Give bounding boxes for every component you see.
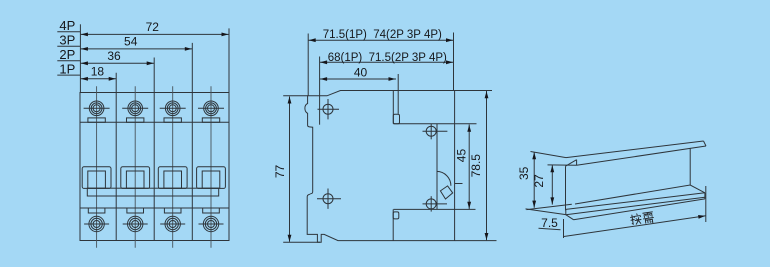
- din rail: web right end edge: [689, 148, 691, 185]
- din rail: 35 dim bottom extension line: [526, 209, 566, 215]
- din rail: 27 dim top extension line: [548, 164, 577, 166]
- svg-text:72: 72: [146, 20, 160, 34]
- front view: bottom terminal section divider line: [80, 207, 229, 209]
- side view: top extension line for 78.5 dim: [455, 90, 492, 92]
- svg-text:18: 18: [91, 64, 105, 78]
- front view: pole 1 bottom terminal screw: [89, 216, 104, 231]
- front view: pole separator line 2: [153, 58, 155, 241]
- front view: pole 3 center line: [172, 86, 174, 248]
- side view: back step vertical line at top: [392, 91, 394, 124]
- front view: pole 1 top terminal screw: [89, 101, 104, 116]
- svg-text:2P: 2P: [59, 47, 75, 62]
- svg-text:71.5(1P) 74(2P 3P 4P): 71.5(1P) 74(2P 3P 4P): [323, 29, 442, 41]
- din rail: 7.5 dim right extension line: [563, 219, 565, 238]
- front view: pole 1 toggle lever recess: [82, 167, 111, 189]
- din rail: top flange back edge: [566, 141, 704, 158]
- din rail: bottom flange front bottom edge: [574, 199, 705, 220]
- din rail: web left end edge: [565, 166, 567, 210]
- dimension 72: [80, 33, 229, 35]
- svg-text:40: 40: [354, 65, 368, 79]
- front view: pole 3 bottom terminal screw: [165, 216, 180, 231]
- din rail: length dim extension line at right end: [705, 186, 707, 222]
- front view: pole 4 top terminal clamp: [202, 118, 219, 122]
- side view: DIN recess lower ledge line: [394, 208, 476, 210]
- dimension as-needed length: [564, 216, 706, 237]
- front view: pole 4 toggle lever recess: [197, 167, 226, 189]
- side view: recess floor vertical line: [436, 124, 438, 210]
- front view: pole 2 center line: [134, 86, 136, 248]
- din rail: top flange left lip edges: [566, 160, 577, 167]
- side view: DIN recess upper ledge line: [393, 123, 476, 125]
- side view: extension line for 40 dim: [397, 74, 399, 114]
- side view: DIN clip latch arc: [437, 171, 451, 185]
- front view: pole separator line 1: [115, 73, 117, 241]
- dimension 35: [533, 152, 535, 208]
- side view: bottom front screw: [323, 194, 333, 204]
- front view: pole 4 top terminal screw: [204, 101, 219, 116]
- svg-text:27: 27: [532, 174, 546, 188]
- dimension 40: [320, 78, 396, 80]
- side view: back vertical line below recess: [392, 209, 394, 240]
- side view: back edge tick: [455, 183, 463, 185]
- front view: pole 2 top terminal clamp: [127, 118, 144, 122]
- front view: pole 3 toggle lever recess: [158, 167, 187, 189]
- side view: DIN clip latch tab: [440, 186, 452, 199]
- din rail: bottom flange left end edges: [565, 209, 567, 214]
- front view: pole separator line 3: [191, 43, 193, 241]
- svg-text:77: 77: [273, 165, 287, 179]
- front view: pole 4 center line: [210, 86, 212, 248]
- front view: pole 2 top terminal screw: [128, 101, 143, 116]
- front view: breaker body outline: [80, 93, 229, 241]
- side view: 77 dim bottom extension line: [283, 241, 320, 243]
- din rail: top flange front edge: [577, 146, 706, 165]
- side view: bottom back mounting hole: [426, 199, 436, 209]
- svg-text:1P: 1P: [59, 62, 75, 77]
- dimension 36: [80, 62, 154, 64]
- svg-text:54: 54: [124, 35, 138, 49]
- dimension 27: [551, 165, 553, 205]
- din rail: bottom flange back top edge: [575, 185, 705, 204]
- front view: pole 1 bottom terminal clamp: [88, 208, 105, 213]
- side view: top front screw: [323, 104, 333, 114]
- side view: lower bus-bar notch: [393, 212, 399, 219]
- front view: top terminal section divider line: [80, 121, 229, 123]
- dimension 54: [80, 48, 192, 50]
- side view: right extension line for depth dims: [453, 33, 455, 91]
- side view: front face step line: [319, 57, 321, 125]
- din rail: bottom flange right end cap: [704, 193, 706, 199]
- front view: handle tie bar: [87, 188, 218, 196]
- front view: pole 3 toggle lever: [164, 171, 182, 188]
- svg-text:35: 35: [517, 166, 531, 180]
- front view: pole 3 top terminal clamp: [164, 118, 181, 122]
- din rail: bottom flange front top edge: [566, 193, 705, 210]
- svg-text:78.5: 78.5: [469, 154, 483, 178]
- dimension 71.5(1P) 74(2P 3P 4P): [308, 39, 453, 41]
- din rail: top flange right end cap: [704, 141, 707, 146]
- side view: breaker body profile outline: [305, 91, 455, 243]
- front view: pole 4 bottom terminal clamp: [203, 208, 220, 213]
- front view: pole 2 bottom terminal screw: [128, 216, 143, 231]
- front view: pole 3 bottom terminal clamp: [164, 208, 181, 213]
- svg-text:45: 45: [455, 149, 469, 163]
- svg-text:36: 36: [107, 49, 121, 63]
- side view: upper bus-bar notch: [393, 114, 399, 124]
- din rail: bottom flange front middle edge: [566, 197, 705, 215]
- svg-text:4P: 4P: [59, 18, 75, 33]
- front view: pole 4 bottom terminal screw: [203, 216, 218, 231]
- front view: pole 2 bottom terminal clamp: [127, 208, 144, 213]
- front view: left extension line for pole dims: [79, 24, 81, 92]
- side view: left extension line for 71.5/74 dim: [307, 34, 309, 96]
- dimension 18: [80, 78, 116, 80]
- side view: bottom extension line for 78.5 dim: [455, 240, 497, 242]
- svg-text:68(1P) 71.5(2P 3P 4P): 68(1P) 71.5(2P 3P 4P): [328, 52, 447, 64]
- side view: top back mounting hole: [426, 126, 436, 136]
- front view: pole 1 toggle lever: [88, 171, 106, 188]
- front view: right edge extension line for 72 dim: [228, 28, 230, 92]
- svg-text:3P: 3P: [59, 33, 75, 48]
- dimension 68(1P) 71.5(2P 3P 4P): [320, 61, 454, 63]
- dimension 78.5: [486, 91, 488, 240]
- front view: pole 1 top terminal clamp: [88, 118, 105, 122]
- front view: pole 3 top terminal screw: [165, 101, 180, 116]
- svg-text:7.5: 7.5: [541, 216, 558, 230]
- dimension 45: [468, 125, 470, 210]
- front view: pole 2 toggle lever: [126, 171, 144, 188]
- side view: 77 dim top extension line: [283, 95, 307, 97]
- front view: pole 2 toggle lever recess: [121, 167, 150, 189]
- front view: pole 4 toggle lever: [202, 171, 220, 188]
- dimension 77: [289, 97, 291, 242]
- din rail: 35 dim top extension line: [531, 152, 567, 158]
- din rail: 27 dim bottom extension line: [527, 204, 572, 209]
- front view: pole 1 center line: [96, 86, 98, 248]
